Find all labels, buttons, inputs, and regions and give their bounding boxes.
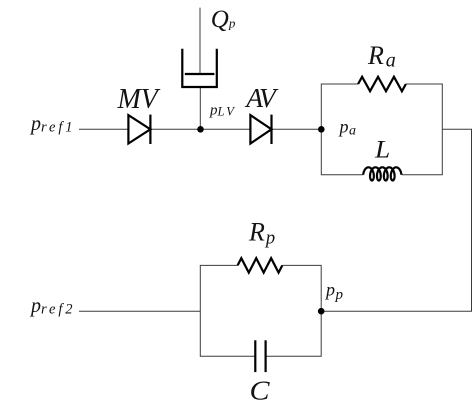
svg-text:Qp: Qp	[211, 6, 236, 33]
wire Rp to node pp	[282, 265, 321, 311]
resistor Rp	[238, 258, 283, 272]
node pLV junction	[197, 126, 204, 133]
wire pref1 to MV	[79, 128, 128, 130]
wire C to node pp	[266, 311, 322, 356]
wire MV to node pLV	[150, 128, 200, 130]
wire node pa up to Ra branch	[321, 84, 358, 129]
svg-text:pp: pp	[324, 280, 344, 303]
pump Qp piston cylinder cup	[182, 49, 217, 87]
wire piston rod Qp	[199, 8, 201, 74]
wire node pa down to L branch	[321, 129, 363, 174]
svg-text:pref2: pref2	[29, 295, 75, 318]
wire AV to node pa	[272, 128, 322, 130]
pump Qp piston plate	[185, 73, 215, 75]
wire cup bottom to node pLV	[199, 87, 201, 129]
inductor L	[363, 167, 401, 180]
node pa junction	[318, 126, 325, 133]
svg-text:pLV: pLV	[209, 102, 236, 118]
svg-text:AV: AV	[244, 82, 279, 113]
resistor Ra	[358, 77, 406, 91]
svg-text:pref1: pref1	[29, 113, 75, 136]
wire bottom box left down to C	[200, 311, 255, 356]
node pp junction	[318, 308, 325, 315]
wire Ra to right rail	[406, 84, 442, 129]
capacitor C plates	[255, 340, 265, 372]
wire right rail down	[321, 129, 471, 311]
svg-text:Ra: Ra	[367, 41, 396, 72]
svg-text:L: L	[374, 137, 390, 164]
svg-text:C: C	[250, 376, 271, 406]
wire pref2 to bottom box	[79, 310, 200, 312]
valve AV (diode symbol)	[250, 115, 271, 144]
wire bottom box left up to Rp	[200, 265, 237, 311]
svg-text:MV: MV	[117, 84, 161, 115]
wire node pLV to AV	[201, 128, 251, 130]
check valve MV (diode symbol)	[128, 115, 150, 144]
wire L to right rail	[402, 129, 443, 174]
svg-text:Rp: Rp	[248, 218, 275, 249]
svg-text:pa: pa	[338, 116, 357, 138]
